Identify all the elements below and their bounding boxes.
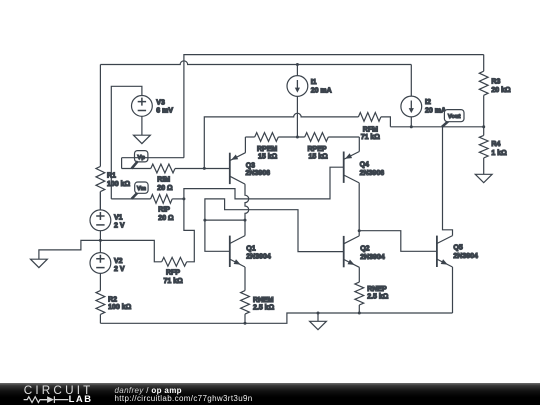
svg-text:Vm: Vm <box>137 186 146 192</box>
CircuitLab logo <box>0 383 110 405</box>
wire V1-V2 mid to ground <box>39 240 101 259</box>
voltage source V3 <box>132 96 174 117</box>
resistor R3 <box>479 55 511 127</box>
svg-text:R3: R3 <box>491 79 500 86</box>
svg-text:Q1: Q1 <box>246 245 255 252</box>
svg-text:Vp: Vp <box>137 155 145 161</box>
current source I2 <box>401 65 446 127</box>
svg-text:RFP: RFP <box>166 269 180 276</box>
ground R4 <box>475 174 492 182</box>
wire V+ supply rail <box>100 61 411 65</box>
resistor RPEM <box>255 133 279 161</box>
svg-text:15 kΩ: 15 kΩ <box>309 154 329 161</box>
current source I1 <box>287 65 332 138</box>
svg-text:Q2: Q2 <box>360 246 369 253</box>
svg-text:71 kΩ: 71 kΩ <box>164 278 184 285</box>
svg-text:2N3904: 2N3904 <box>360 254 385 261</box>
resistor RIP <box>151 195 184 222</box>
wire V3 minus lead <box>141 116 143 135</box>
svg-text:Vout: Vout <box>448 114 461 120</box>
svg-text:V2: V2 <box>114 258 123 265</box>
voltage source V1 <box>90 192 125 253</box>
svg-text:I2: I2 <box>425 99 431 106</box>
wire mirror to Q1 base <box>205 220 230 251</box>
svg-text:1 kΩ: 1 kΩ <box>491 150 507 157</box>
junction RNEP bottom <box>358 312 361 315</box>
svg-text:RPEP: RPEP <box>308 146 327 153</box>
junction Vm node <box>182 197 185 200</box>
svg-text:I1: I1 <box>311 79 317 86</box>
svg-text:Q3: Q3 <box>246 162 255 169</box>
svg-text:V1: V1 <box>114 214 123 221</box>
svg-text:RFM: RFM <box>363 126 378 133</box>
svg-text:RIM: RIM <box>157 177 170 184</box>
svg-text:20 mA: 20 mA <box>311 87 332 94</box>
svg-text:LAB: LAB <box>69 393 93 404</box>
svg-text:RNEP: RNEP <box>367 286 387 293</box>
wire Vp top rail <box>184 55 484 158</box>
wire Vp node <box>122 158 184 169</box>
svg-text:R2: R2 <box>108 296 117 303</box>
resistor RNEP <box>355 282 389 313</box>
wire bottom rail <box>100 313 452 323</box>
svg-text:2.5 kΩ: 2.5 kΩ <box>253 305 275 312</box>
junction Q4-Q2 collectors <box>358 229 361 232</box>
svg-text:RNEM: RNEM <box>253 297 274 304</box>
svg-text:Q5: Q5 <box>453 244 462 251</box>
junction R3-R4 <box>482 125 485 128</box>
junction I1 bottom <box>296 136 299 139</box>
svg-text:2N3904: 2N3904 <box>453 253 478 260</box>
wire to Q5 base <box>359 231 437 252</box>
wire Vm node <box>111 198 150 200</box>
wire Vout line <box>390 126 483 128</box>
transistor Q5 <box>437 127 478 313</box>
svg-text:100 kΩ: 100 kΩ <box>107 181 131 188</box>
ground main <box>310 313 327 330</box>
svg-text:2 V: 2 V <box>114 223 125 230</box>
junction I2 out <box>410 125 413 128</box>
flag Vp <box>132 151 148 169</box>
resistor R2 <box>96 291 132 324</box>
svg-text:Q4: Q4 <box>360 162 369 169</box>
wire V3 plus to Vm node <box>111 86 142 199</box>
flag Vm <box>132 182 148 199</box>
svg-text:71 kΩ: 71 kΩ <box>361 134 381 141</box>
footer bar <box>0 383 540 405</box>
wire mirror tie <box>205 219 245 221</box>
svg-text:20 Ω: 20 Ω <box>158 215 174 222</box>
svg-text:RPEM: RPEM <box>257 146 277 153</box>
resistor RIM <box>151 164 230 192</box>
svg-text:15 kΩ: 15 kΩ <box>258 154 278 161</box>
junction Q3 base node <box>203 167 206 170</box>
junction mirror base <box>203 219 206 222</box>
flag Vout <box>442 110 464 127</box>
resistor R1 <box>96 65 131 210</box>
wire RPEM-RPEP <box>278 136 304 138</box>
svg-text:2N3906: 2N3906 <box>360 170 385 177</box>
svg-text:6 mV: 6 mV <box>156 108 173 115</box>
svg-text:2N3904: 2N3904 <box>246 254 271 261</box>
wire Q3 collector drop <box>245 184 249 220</box>
svg-text:20 Ω: 20 Ω <box>157 185 173 192</box>
junction ground rail <box>317 312 320 315</box>
wire Q3 base to RFM <box>204 113 358 168</box>
svg-text:20 mA: 20 mA <box>425 108 446 115</box>
resistor R4 <box>479 127 507 175</box>
transistor Q4 <box>344 137 385 231</box>
svg-text:V3: V3 <box>156 100 165 107</box>
wire Vm junction to RFP <box>184 199 194 262</box>
ground left <box>31 259 48 267</box>
junction I1 top <box>296 63 299 66</box>
svg-text:RIP: RIP <box>158 206 170 213</box>
svg-text:2N3906: 2N3906 <box>246 170 271 177</box>
junction RNEM bottom <box>244 322 247 325</box>
wire mirror node to Q2 base <box>205 199 344 252</box>
wire Vm to Q4 base <box>184 167 344 199</box>
svg-text:2.5 kΩ: 2.5 kΩ <box>367 293 389 300</box>
footer credits <box>115 387 253 404</box>
resistor RFP <box>100 240 186 285</box>
wire emitter rail <box>245 136 254 138</box>
junction V1-V2 mid <box>99 239 102 242</box>
svg-text:2 V: 2 V <box>114 266 125 273</box>
resistor RFM <box>358 113 390 142</box>
ground V3 <box>134 135 151 143</box>
svg-text:20 kΩ: 20 kΩ <box>491 87 511 94</box>
svg-text:R4: R4 <box>491 141 500 148</box>
svg-text:100 kΩ: 100 kΩ <box>108 304 132 311</box>
voltage source V2 <box>90 253 125 291</box>
resistor RPEP <box>305 133 360 161</box>
transistor Q3 <box>230 137 270 184</box>
transistor Q2 <box>344 231 385 282</box>
transistor Q1 <box>230 220 271 291</box>
junction Q3-Q1 collectors <box>244 219 247 222</box>
resistor RNEM <box>241 291 275 324</box>
